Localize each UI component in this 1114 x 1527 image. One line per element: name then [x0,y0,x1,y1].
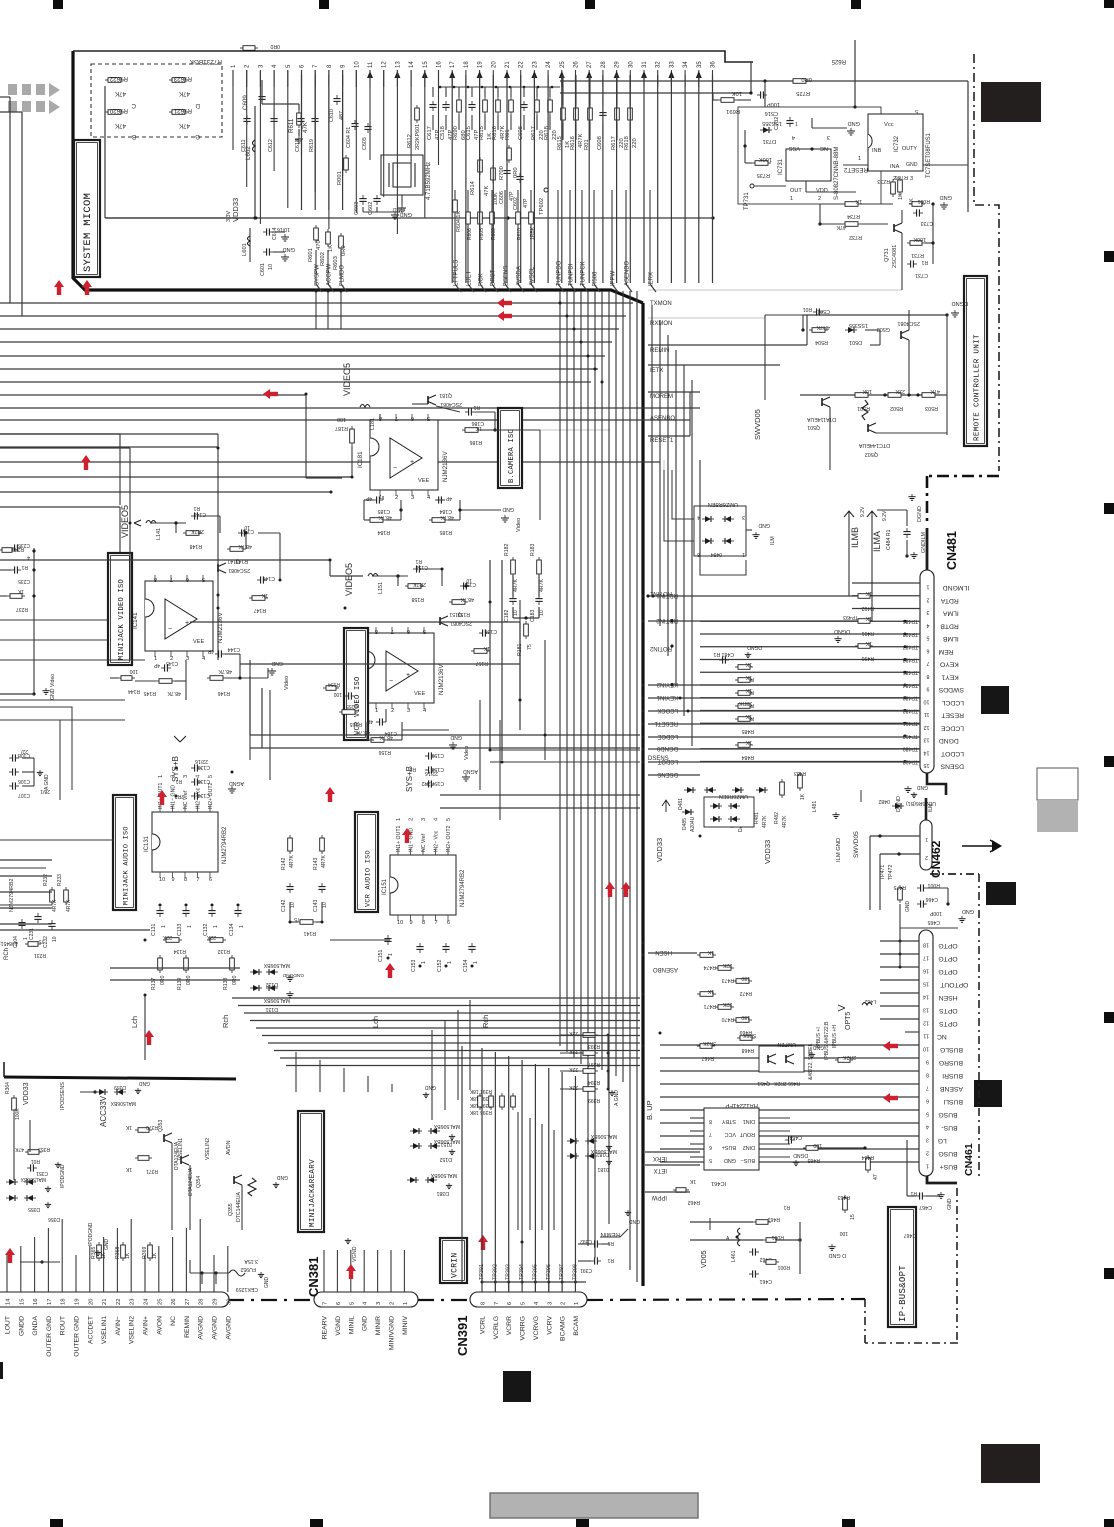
wire video v x250 [249,676,251,735]
wire micom pin34 vertical [684,75,686,283]
wire CN391 pin3 vertical [548,1068,550,1282]
svg-text:VSELIN1: VSELIN1 [178,1138,184,1160]
svg-text:VCRIN: VCRIN [450,1252,459,1278]
svg-text:15: 15 [423,61,429,68]
svg-text:NC Vref: NC Vref [421,833,427,852]
svg-text:R474: R474 [703,964,716,970]
D GND [831,1244,833,1247]
svg-text:DIN1: DIN1 [743,1118,755,1124]
crystal X601 4.71B592MHz [381,155,423,195]
svg-text:C604 R1: C604 R1 [346,127,352,148]
svg-text:C612: C612 [268,139,274,152]
wire harness v x676 [675,350,677,686]
dash-dot boundary CN462/CN461 [930,873,979,875]
svg-text:5: 5 [926,1111,929,1117]
svg-text:0R0: 0R0 [801,76,812,82]
svg-text:1K: 1K [745,674,752,680]
svg-text:R612: R612 [407,134,413,148]
wire vertical bundle x588 [587,291,589,1246]
svg-text:CN481: CN481 [945,531,959,570]
red arrow VGND [346,1264,356,1271]
resistor R486 [735,705,738,707]
wire stair h y1005.5 [238,1005,640,1007]
svg-text:1K: 1K [17,588,24,594]
resistor R365 1K [98,1242,100,1245]
svg-text:R7622: R7622 [109,75,128,82]
C236 top [11,547,15,549]
svg-text:C484 R1: C484 R1 [886,529,892,550]
svg-text:DTA124EUA: DTA124EUA [188,1167,194,1196]
svg-text:1K: 1K [800,793,806,800]
C392 C391 R1 [591,1243,595,1245]
R370 1K [135,1129,138,1131]
svg-text:R1: R1 [783,1204,790,1210]
wire stair h y1050.5 [274,1050,640,1052]
svg-text:100: 100 [333,691,342,697]
svg-text:30: 30 [628,61,634,68]
svg-text:16: 16 [33,1299,39,1305]
DGND mid [837,636,839,639]
svg-text:INA: INA [890,164,900,170]
C139 C138 caps cluster 1 [191,767,195,769]
svg-text:R233: R233 [57,874,63,886]
svg-text:6: 6 [507,1302,513,1305]
svg-text:18: 18 [464,61,470,68]
svg-text:GNDA: GNDA [32,1316,39,1336]
svg-text:L141: L141 [156,528,162,540]
wire CN381A pin15 up [20,1246,22,1284]
svg-text:MAL506BX: MAL506BX [433,1138,460,1144]
svg-text:IETX: IETX [654,1167,667,1173]
svg-text:32: 32 [656,61,662,68]
svg-text:R462: R462 [687,1199,700,1205]
svg-text:3: 3 [926,1137,929,1143]
resistor R393 22K [580,1034,583,1036]
resistor R369 1K [149,1242,151,1245]
svg-text:8: 8 [926,1072,929,1078]
svg-text:VDD: VDD [816,188,828,194]
R157 1K [471,650,474,652]
GND cn462 [961,916,963,919]
svg-text:CN461: CN461 [963,1143,975,1176]
C158 R1 [413,568,417,570]
svg-text:Lch: Lch [371,1016,380,1028]
resistor R144 100 [118,677,121,679]
left edge tick [0,1362,3,1379]
svg-text:L601: L601 [242,243,248,256]
dashed box R7620-R7623 [91,64,222,137]
IP-BUS&OPT label box [888,1207,916,1327]
C617 [432,101,434,105]
svg-text:C151: C151 [378,949,384,962]
resistor R469 180 [733,1019,736,1021]
wire CN381A pin19 up [75,1255,77,1284]
wire audio h y930 [0,929,150,931]
svg-text:R399: R399 [588,1097,600,1103]
svg-text:1: 1 [154,656,157,662]
svg-text:1: 1 [927,584,930,590]
C501 R01 [813,311,817,313]
svg-text:GND: GND [962,908,974,914]
svg-text:MINIJACK AUDIO ISO: MINIJACK AUDIO ISO [122,826,130,905]
wire vertical bundle x560 [559,291,561,1046]
resistor R488 [735,679,738,681]
svg-text:4R7K: 4R7K [782,815,788,828]
svg-text:D381: D381 [436,1190,449,1196]
svg-text:ACCDET: ACCDET [87,1316,94,1344]
svg-text:47K: 47K [302,121,309,133]
svg-text:2R7K: 2R7K [412,581,426,587]
svg-text:UMZ6R8EN: UMZ6R8EN [708,501,738,507]
C151 1 [387,935,389,939]
svg-text:GND: GND [400,211,412,217]
red up arrow vcr audio lch [385,963,395,970]
Q151 2SC4081 [439,617,441,625]
svg-text:R735: R735 [757,172,770,178]
svg-text:IPODSENS: IPODSENS [60,1082,66,1110]
svg-text:C139: C139 [197,764,210,770]
svg-text:KEY1: KEY1 [941,673,959,680]
wire video h y748 [250,747,640,749]
svg-text:4R7K: 4R7K [513,578,519,592]
C154 1 [471,943,473,947]
white/gray print swatch [1037,768,1078,800]
svg-text:AVGND: AVGND [225,1316,232,1340]
wire v x250 [249,660,251,760]
svg-text:4R7K: 4R7K [539,578,545,592]
svg-text:R001: R001 [917,198,930,204]
gray ghost arrows top left [8,84,17,95]
svg-text:C461: C461 [759,1278,772,1284]
svg-text:VCRLG: VCRLG [493,1316,500,1339]
R461 [753,1221,756,1223]
svg-text:OPTG: OPTG [938,968,957,975]
svg-text:OPTS: OPTS [939,1020,958,1027]
wire stair h y1013.0 [244,1012,640,1014]
Q141 2SC4081 [217,564,219,572]
svg-text:+: + [406,672,410,679]
svg-text:3: 3 [742,514,745,520]
svg-text:R134: R134 [173,948,186,954]
svg-text:Q501: Q501 [807,424,820,430]
svg-text:4R7K: 4R7K [66,899,72,912]
svg-text:13: 13 [923,1007,929,1013]
SYSTEM MICOM block border [73,51,643,303]
C606 47P [506,167,508,171]
micom pin stubs [232,70,234,87]
svg-text:VCRR: VCRR [506,1316,513,1335]
R616 b [575,105,577,108]
svg-text:16: 16 [437,61,443,68]
resistor R7620 [105,111,108,113]
svg-text:R485: R485 [741,728,754,734]
red arrows cn461 [883,1041,890,1051]
svg-text:8: 8 [709,1118,712,1124]
wire lch elbow [144,995,146,1060]
svg-text:13: 13 [924,737,930,743]
svg-text:C145: C145 [166,660,178,666]
svg-text:7: 7 [709,1131,712,1137]
svg-text:MAL506BX: MAL506BX [430,1172,457,1178]
R691 10K [718,99,721,101]
svg-text:VDD33: VDD33 [23,1082,30,1105]
R467 3R3K [697,1045,700,1047]
svg-text:1: 1 [447,961,453,964]
R475 [899,885,901,888]
svg-text:17: 17 [450,61,456,68]
svg-text:IERX: IERX [653,1155,667,1161]
svg-text:1K: 1K [125,1166,132,1172]
wire stair h y1043.0 [268,1042,640,1044]
svg-text:LCDCE: LCDCE [940,724,964,731]
ILM GND [835,812,837,815]
svg-text:MINIJACK VIDEO ISO: MINIJACK VIDEO ISO [118,579,126,660]
wire CN391 pin1 vertical [574,1076,576,1282]
svg-text:22/16: 22/16 [195,758,208,764]
svg-text:1: 1 [858,156,861,162]
svg-text:AVIN−: AVIN− [115,1316,122,1335]
svg-text:+: + [410,459,414,466]
svg-text:IC131: IC131 [144,835,150,852]
C614 10/16 [263,231,267,233]
svg-text:2SC4081: 2SC4081 [892,245,898,268]
Q502 DTC144EUA [867,424,869,432]
svg-text:10/16: 10/16 [277,226,290,232]
resistor R182 4R7K [512,557,514,560]
svg-text:28: 28 [601,61,607,68]
resistor R473 22K [715,967,718,969]
svg-text:R01: R01 [505,129,511,140]
C153 1 [419,943,421,947]
svg-text:14: 14 [409,61,415,68]
svg-text:22: 22 [116,1299,122,1305]
svg-text:INB: INB [872,148,882,154]
wire v x458 [457,1010,459,1100]
resistor R472 180 [733,980,736,982]
svg-text:RDTA: RDTA [940,597,958,604]
svg-text:48.7K: 48.7K [356,729,370,735]
wire micom pin20 vertical [492,75,494,283]
svg-text:C159: C159 [431,752,444,758]
wire vertical bundle x581 [580,291,582,1064]
wire v x542 [541,1124,543,1230]
R616 [497,97,499,100]
wire v x545 [544,640,546,760]
R139 0R0 [185,955,187,958]
DGND remote [954,310,956,313]
svg-text:C143: C143 [313,899,319,912]
svg-text:R353: R353 [38,1146,50,1152]
svg-text:34: 34 [683,61,689,68]
svg-text:R1: R1 [473,404,480,410]
svg-text:R475: R475 [893,884,906,890]
C156 [479,632,483,634]
svg-text:1K: 1K [101,1252,107,1259]
svg-text:470: 470 [316,240,322,250]
C601 10 [263,251,267,253]
svg-text:2SC4081: 2SC4081 [228,567,250,573]
wire video h y664 [240,663,520,665]
capacitor C609 [261,93,263,97]
wire vertical bundle x623 [622,291,624,1082]
Q354 [180,1156,182,1164]
svg-text:47K: 47K [484,186,490,196]
connector CN461 [919,930,933,1176]
svg-text:100K: 100K [15,1108,21,1120]
wire stair h y1020.5 [250,1020,640,1022]
svg-text:DGND: DGND [834,628,850,634]
wire vertical bundle x630 [629,291,631,1270]
svg-text:2SC4081: 2SC4081 [450,620,472,626]
svg-text:7: 7 [494,1302,500,1305]
svg-text:D355: D355 [28,1206,40,1212]
svg-text:3.3V: 3.3V [226,211,232,222]
svg-text:ILM: ILM [770,536,776,545]
wire left-top v2 [21,112,23,316]
svg-text:LFTPULS: LFTPULS [454,260,460,286]
capacitor C184 4P [435,499,439,501]
C104 1 [21,919,23,923]
red up arrow vcr audio top [402,828,412,835]
svg-text:R1: R1 [21,564,28,570]
wire CN381A pin14 up [6,1255,8,1284]
resistor R462 1K [673,1189,676,1191]
svg-text:R7620: R7620 [109,107,128,114]
svg-text:4: 4 [196,775,202,778]
svg-text:GND: GND [758,522,770,528]
svg-text:8: 8 [481,1302,487,1305]
R614 [479,157,481,160]
wire video h y735 [250,734,640,736]
R731 100K [907,242,910,244]
svg-text:BUSLI: BUSLI [943,1098,963,1105]
diodes D355 D356 MAL506BX [9,1179,15,1185]
svg-text:47: 47 [873,1174,879,1180]
svg-text:C107: C107 [18,792,30,798]
svg-text:OPTOUT: OPTOUT [940,981,968,988]
svg-text:IC461: IC461 [711,1180,726,1186]
svg-text:C: C [131,102,136,109]
bold border minijack-rearv [4,1077,236,1079]
svg-text:IPODGND: IPODGND [88,1222,94,1246]
svg-text:13: 13 [395,61,401,68]
svg-text:1K: 1K [152,1252,158,1259]
svg-text:C104: C104 [13,936,19,948]
svg-text:0484: 0484 [711,551,722,557]
wire micom pin35 vertical [698,75,700,283]
svg-text:48.7K: 48.7K [218,668,232,674]
R001 [345,155,347,158]
fuse FU352 [229,1270,245,1276]
svg-text:ILMB: ILMB [850,527,860,548]
svg-text:1K: 1K [125,1124,132,1130]
wire micom pin25 vertical [561,75,563,283]
svg-text:R231: R231 [34,952,46,958]
svg-text:R1: R1 [193,505,200,511]
wire vertical bundle x567 [566,291,568,1052]
svg-text:GND: GND [947,1198,953,1210]
svg-text:GND: GND [425,1084,437,1090]
svg-text:7: 7 [435,920,438,926]
svg-text:NJM2136V: NJM2136V [442,451,449,482]
svg-text:180: 180 [741,975,750,981]
svg-text:24: 24 [546,61,552,68]
svg-text:R394: R394 [588,1079,600,1085]
svg-text:NC: NC [170,1316,177,1326]
svg-text:RESET: RESET [941,712,964,719]
svg-text:VGND: VGND [335,1316,342,1336]
svg-text:IP-BUS&OPT: IP-BUS&OPT [898,1265,908,1322]
svg-text:47K: 47K [14,1146,24,1152]
svg-text:1K: 1K [745,687,752,693]
svg-text:9.2V: 9.2V [860,506,866,517]
wire mesh video area [0,447,130,449]
svg-text:VCRL: VCRL [480,1316,487,1334]
svg-text:D GND: D GND [829,1252,846,1258]
svg-text:GND: GND [940,194,952,200]
red up arrow left mid [81,455,91,462]
svg-text:GND: GND [283,246,295,252]
wire y420 [0,419,690,421]
IPODGND [57,1162,59,1164]
svg-text:Video: Video [284,676,290,690]
svg-text:OPTG: OPTG [938,942,957,949]
GND q355 [275,1182,277,1184]
svg-text:R618: R618 [544,126,550,140]
svg-text:R610: R610 [517,228,523,240]
svg-text:9: 9 [410,920,413,926]
svg-text:R184: R184 [377,529,390,535]
wire bus y342 [0,341,612,343]
svg-text:BUS+: BUS+ [722,1144,736,1150]
svg-text:R490: R490 [861,655,874,661]
svg-text:48.7K: 48.7K [238,543,252,549]
svg-text:TP731: TP731 [744,192,750,210]
svg-text:CN381: CN381 [306,1257,321,1297]
wire left stub y908 [0,907,52,909]
svg-text:R503: R503 [925,405,938,411]
svg-text:GNDILM: GNDILM [921,532,927,553]
wire v x518 [517,1112,519,1230]
svg-text:B: B [132,133,136,140]
TP602 [544,188,548,192]
svg-text:R725: R725 [796,90,810,96]
svg-text:3: 3 [910,176,913,182]
svg-text:MAL506BX: MAL506BX [20,1176,46,1182]
svg-text:GND: GND [905,901,911,913]
wire video h y795 [440,794,640,796]
svg-text:Q141: Q141 [227,558,240,564]
svg-text:12: 12 [923,1020,929,1026]
svg-text:3: 3 [927,609,930,615]
svg-text:15: 15 [19,1299,25,1305]
red up arrow audio lch [144,1030,154,1037]
svg-text:36: 36 [711,61,717,68]
svg-text:R183: R183 [530,543,536,556]
svg-text:D359: D359 [114,1084,126,1090]
C465 100P [917,903,921,905]
svg-text:DGND0: DGND0 [656,745,678,751]
svg-text:R611: R611 [288,118,295,133]
svg-text:MAL506BX: MAL506BX [263,962,290,968]
svg-text:100: 100 [337,416,346,422]
svg-text:C235: C235 [18,578,30,584]
black patch right mid2 [986,882,1016,905]
svg-text:R182: R182 [504,543,510,556]
svg-text:R001: R001 [771,1234,784,1240]
wire v x270 [269,690,271,780]
svg-text:VDD33: VDD33 [655,838,664,862]
